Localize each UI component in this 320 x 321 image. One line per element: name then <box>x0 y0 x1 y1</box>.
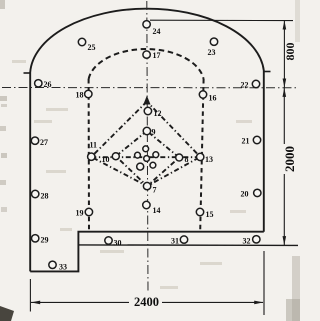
svg-text:11: 11 <box>90 141 98 150</box>
outer diamond <box>91 102 200 187</box>
svg-text:33: 33 <box>59 263 67 272</box>
2400 right extension line <box>263 251 265 315</box>
svg-text:14: 14 <box>153 206 161 215</box>
right spring tick <box>263 71 271 73</box>
svg-text:26: 26 <box>44 80 52 89</box>
svg-text:8: 8 <box>185 155 189 164</box>
svg-text:29: 29 <box>41 236 49 245</box>
svg-text:27: 27 <box>40 138 48 147</box>
hole 19 <box>85 208 92 215</box>
hole 25 <box>78 38 85 45</box>
floor line (bench top) <box>30 232 264 272</box>
hole 26 <box>35 80 42 87</box>
left spring tick <box>24 72 31 74</box>
800 dim line <box>283 20 285 87</box>
2400 left extension line <box>29 279 31 312</box>
hole 21 <box>253 136 260 143</box>
2000 dim line <box>283 88 285 245</box>
hole 27 <box>31 137 38 144</box>
horizontal centerline <box>2 87 298 89</box>
hole 17 <box>143 51 150 58</box>
tunnel outline: arch crown + walls <box>30 9 264 272</box>
svg-text:12: 12 <box>154 109 162 118</box>
hole circles <box>31 21 261 269</box>
hole 32 <box>253 236 260 243</box>
hole 8 <box>176 154 183 161</box>
inner diamond <box>116 131 179 186</box>
faint ghost text noise <box>12 60 252 289</box>
apex arrow <box>143 96 150 105</box>
bottom-left corner blob <box>0 306 14 321</box>
800 dim extension line <box>150 19 293 21</box>
svg-text:7: 7 <box>153 186 157 195</box>
svg-text:21: 21 <box>242 137 250 146</box>
svg-text:15: 15 <box>206 210 214 219</box>
svg-text:16: 16 <box>209 94 217 103</box>
hole 29 <box>32 235 39 242</box>
svg-text:18: 18 <box>76 91 84 100</box>
svg-text:17: 17 <box>153 51 161 60</box>
svg-text:25: 25 <box>88 43 96 52</box>
hole 31 <box>180 236 187 243</box>
svg-text:2000: 2000 <box>282 146 297 172</box>
hole 18 <box>85 90 92 97</box>
2400 dim line <box>31 301 129 303</box>
hole 7 <box>143 182 150 189</box>
svg-text:800: 800 <box>283 43 297 61</box>
svg-text:24: 24 <box>153 27 161 36</box>
bottom-right smudge <box>286 299 300 321</box>
band bottom line <box>78 244 298 247</box>
hole 10 <box>112 153 119 160</box>
svg-text:9: 9 <box>152 128 156 137</box>
svg-text:28: 28 <box>41 192 49 201</box>
svg-text:19: 19 <box>76 209 84 218</box>
hole 30 <box>105 237 112 244</box>
svg-text:2400: 2400 <box>134 295 159 309</box>
cut cluster <box>143 146 149 152</box>
hole 15 <box>196 208 203 215</box>
svg-text:23: 23 <box>208 48 216 57</box>
svg-text:30: 30 <box>114 239 122 248</box>
hole 23 <box>210 38 217 45</box>
svg-text:10: 10 <box>102 155 110 164</box>
hole 12 <box>144 107 151 114</box>
hole 13 <box>197 153 204 160</box>
right dashed vertical <box>200 79 203 231</box>
hole 11 <box>88 153 95 160</box>
hole 28 <box>32 190 39 197</box>
dashed inner arch <box>89 49 204 79</box>
svg-text:13: 13 <box>205 155 213 164</box>
hole 20 <box>254 189 261 196</box>
hole number labels <box>40 27 251 272</box>
hole 9 <box>143 127 150 134</box>
hole 14 <box>143 201 150 208</box>
hole 24 <box>143 21 150 28</box>
left dashed vertical <box>88 79 90 231</box>
svg-text:22: 22 <box>241 81 249 90</box>
svg-text:32: 32 <box>243 237 251 246</box>
svg-text:31: 31 <box>171 237 179 246</box>
hole 33 <box>49 261 56 268</box>
horizontal cut line <box>91 156 200 158</box>
vertical centerline <box>147 1 148 292</box>
svg-text:20: 20 <box>241 190 249 199</box>
hole 16 <box>199 91 206 98</box>
hole 22 <box>252 80 259 87</box>
